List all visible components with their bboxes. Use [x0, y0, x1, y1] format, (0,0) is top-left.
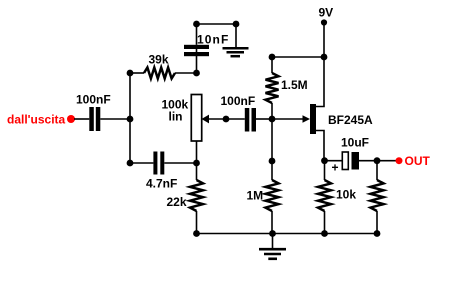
svg-text:1.5M: 1.5M: [281, 78, 308, 92]
wire 9V feed: [323, 23, 325, 58]
node top rail left dot: [193, 21, 200, 28]
svg-text:lin: lin: [169, 110, 183, 124]
node bottom rail left dot: [193, 230, 200, 237]
wire C5 to OUT node: [359, 160, 396, 162]
node bottom rail dot under 10k: [321, 230, 328, 237]
resistor 1.5M: [266, 73, 279, 103]
svg-text:9V: 9V: [319, 6, 334, 20]
ground top: [223, 48, 249, 56]
svg-text:4.7nF: 4.7nF: [146, 177, 177, 191]
wire to top ground: [235, 24, 237, 48]
capacitor C3 4.7nF: [153, 152, 164, 175]
wire C1 to node A: [100, 118, 130, 120]
wire 4.7nF right lead: [164, 162, 196, 164]
node rail2 left dot: [269, 54, 276, 61]
node wiper wire dot: [223, 116, 230, 123]
transistor Q1 drain lead: [316, 57, 324, 107]
node 9V terminal dot: [321, 19, 327, 25]
wire node C to 22k: [196, 163, 198, 180]
wire bottom rail: [197, 233, 378, 235]
svg-text:BF245A: BF245A: [328, 113, 373, 127]
wire 4.7nF left lead: [130, 162, 153, 164]
svg-text:10nF: 10nF: [197, 33, 229, 47]
capacitor C1 100nF input coupling: [89, 107, 100, 131]
node C junction dot (pot bottom / 4.7nF / 22k): [193, 160, 200, 167]
wire 10k bottom lead: [324, 211, 326, 234]
svg-text:OUT: OUT: [405, 154, 431, 168]
svg-text:10uF: 10uF: [341, 136, 369, 150]
wire source node down to 10k: [324, 161, 326, 180]
wire C2 to gate node: [256, 118, 272, 120]
wire wiper to C2: [209, 118, 245, 120]
wire top rail: [197, 23, 237, 25]
svg-text:100nF: 100nF: [221, 94, 256, 108]
wire C4 top to rail: [196, 24, 198, 45]
node 4.7nF left dot: [127, 160, 134, 167]
wire 1.5M bottom lead to gate node: [271, 103, 273, 119]
ground bottom: [259, 249, 286, 259]
svg-text:22k: 22k: [167, 195, 187, 209]
node bottom rail right dot: [374, 230, 381, 237]
svg-text:100nF: 100nF: [76, 93, 111, 107]
wire load bottom lead: [376, 211, 378, 234]
svg-text:39k: 39k: [149, 53, 169, 67]
node bottom rail center dot: [269, 230, 276, 237]
svg-text:1M: 1M: [247, 189, 264, 203]
wire gate lead to transistor: [272, 118, 303, 120]
transistor Q1 source lead: [316, 131, 324, 161]
transistor Q1 BF245A channel bar: [310, 104, 316, 134]
wire 39k right lead: [175, 72, 197, 74]
svg-text:10k: 10k: [336, 188, 356, 202]
wire gate node down to 1M: [271, 119, 273, 180]
wire 1.5M top lead: [271, 57, 273, 73]
wire input terminal to C1: [74, 118, 89, 120]
resistor load (unlabelled): [371, 180, 384, 211]
node B junction dot (39k / pot top / C4): [193, 70, 200, 77]
node top rail right dot: [233, 21, 240, 28]
wire pot bottom lead: [196, 141, 198, 163]
wire 39k left lead: [130, 72, 144, 74]
wire 1M bottom lead: [271, 211, 273, 234]
node OUT terminal red dot: [396, 157, 403, 164]
wire drain rail: [272, 56, 324, 58]
wire OUT node down to load resistor: [376, 161, 378, 180]
capacitor C4 10nF: [184, 45, 209, 56]
capacitor C2 100nF: [245, 108, 256, 132]
node corner dot top-left: [127, 70, 134, 77]
svg-text:dall'uscita: dall'uscita: [7, 113, 66, 127]
node A junction dot: [127, 116, 134, 123]
wire 22k bottom lead: [196, 211, 198, 234]
resistor 39k: [144, 68, 175, 79]
node input terminal red dot: [67, 115, 75, 123]
wire node B up to C4: [196, 45, 198, 73]
capacitor C5 10uF electrolytic: [342, 152, 359, 170]
resistor 1M: [266, 180, 279, 211]
node dot on gate-1M wire: [269, 158, 276, 165]
resistor 10k: [318, 180, 331, 211]
wire to bottom ground: [272, 234, 274, 250]
wire source node to C5: [325, 160, 343, 162]
node gate junction dot: [269, 116, 276, 123]
wire node A vertical riser: [129, 73, 131, 163]
potentiometer 100k lin body: [191, 95, 201, 142]
transistor Q1 BF245A gate arrow: [303, 115, 311, 123]
node OUT junction dot: [374, 157, 381, 164]
svg-text:+: +: [332, 161, 339, 175]
node rail2 right dot: [321, 54, 328, 61]
potentiometer wiper arrow: [202, 115, 210, 124]
node source junction dot: [321, 157, 328, 164]
resistor 22k: [190, 180, 203, 211]
